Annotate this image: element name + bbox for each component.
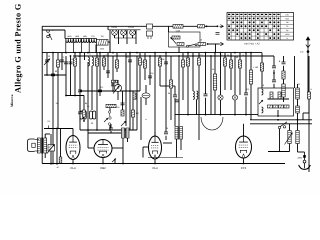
- wire: [65, 39, 67, 53]
- capacitor C22: [244, 93, 248, 95]
- wire: [297, 84, 299, 88]
- wire: [297, 113, 299, 120]
- wire: [165, 128, 167, 132]
- switch S2 contacts: [108, 111, 111, 125]
- wire: [109, 30, 111, 53]
- svg-text:Minerva: Minerva: [10, 94, 14, 107]
- junction: [87, 52, 89, 54]
- coil L6: [92, 57, 94, 66]
- wire: [132, 35, 134, 38]
- dial arc: [201, 117, 223, 130]
- junction: [102, 163, 104, 165]
- svg-text:YXJ11: YXJ11: [128, 26, 135, 29]
- winding L7: [122, 128, 125, 138]
- wire: [46, 53, 48, 75]
- junction: [297, 119, 299, 121]
- capacitor C18: [148, 76, 152, 78]
- junction: [103, 55, 105, 57]
- capacitor C9: [83, 111, 86, 119]
- wire: [56, 129, 58, 164]
- svg-text:MW: MW: [286, 17, 290, 20]
- svg-text:7WfW: 7WfW: [111, 26, 118, 29]
- capacitor C1: [45, 60, 49, 62]
- junction: [65, 95, 67, 97]
- wire coil rail: [65, 38, 97, 40]
- shield box: [169, 32, 201, 47]
- wire: [115, 37, 137, 39]
- wire: [214, 53, 216, 74]
- wire: [135, 30, 137, 44]
- junction: [230, 55, 232, 57]
- wire: [294, 56, 296, 88]
- svg-text:(4Ω): (4Ω): [67, 35, 71, 38]
- wire: [79, 53, 81, 130]
- wire: [74, 53, 76, 96]
- tube V9 CY2: [236, 136, 252, 170]
- junction: [72, 163, 74, 165]
- resistor R27: [270, 92, 273, 99]
- junction: [245, 114, 247, 116]
- wire: [289, 124, 291, 131]
- resistor R25: [279, 105, 284, 108]
- resistor R15: [158, 58, 161, 66]
- wire: [79, 96, 81, 113]
- wire: [80, 39, 82, 53]
- junction: [273, 72, 275, 74]
- svg-text:KW: KW: [286, 13, 289, 16]
- winding L15: [296, 88, 300, 99]
- svg-text:1M: 1M: [56, 102, 59, 105]
- wire: [239, 53, 241, 60]
- resistor R23: [268, 105, 273, 108]
- wire: [52, 53, 54, 164]
- wire arrow: [114, 160, 116, 164]
- tube V6 CL4: [66, 136, 80, 170]
- junction: [52, 52, 54, 54]
- wire: [149, 56, 151, 85]
- wire: [144, 53, 146, 80]
- wire: [72, 129, 74, 136]
- resistor R33: [112, 80, 118, 83]
- wire: [165, 53, 167, 96]
- wire lamp rail: [108, 29, 141, 31]
- wire: [250, 53, 252, 70]
- junction: [122, 163, 124, 165]
- wire: [250, 119, 312, 121]
- capacitor C7: [78, 90, 82, 92]
- wire: [136, 56, 138, 130]
- wire: [57, 75, 59, 129]
- wire: [178, 56, 180, 126]
- wire: [87, 62, 89, 133]
- capacitor C11: [93, 111, 96, 119]
- wire: [277, 110, 279, 116]
- wire: [107, 26, 109, 30]
- svg-text:UKW: UKW: [285, 33, 290, 36]
- wire baseline: [42, 163, 285, 165]
- junction: [159, 55, 161, 57]
- resistor R11: [121, 110, 124, 116]
- wire: [168, 26, 170, 32]
- antenna: [306, 36, 311, 56]
- wire: [87, 133, 89, 148]
- wire: [261, 53, 263, 63]
- wire: [180, 139, 182, 150]
- winding L8: [126, 128, 129, 138]
- wire: [112, 147, 123, 149]
- junction: [243, 163, 245, 165]
- wire cluster bottom: [80, 129, 137, 131]
- resistor R21: [229, 60, 232, 68]
- junction: [74, 52, 76, 54]
- svg-text:Allegro G und Presto G: Allegro G und Presto G: [14, 3, 23, 93]
- svg-text:Sp: Sp: [286, 29, 288, 32]
- wire: [60, 129, 62, 158]
- wire: [170, 56, 172, 80]
- junction: [99, 52, 101, 54]
- svg-text:CY2: CY2: [241, 166, 247, 170]
- junction: [205, 52, 207, 54]
- wire: [308, 56, 310, 92]
- resistor R13: [138, 58, 141, 65]
- mains switch S3: [278, 122, 287, 129]
- wire: [308, 99, 310, 113]
- svg-text:40: 40: [56, 166, 58, 169]
- wire: [72, 160, 74, 164]
- junction: [74, 95, 76, 97]
- junction: [149, 55, 151, 57]
- resistor R20: [223, 58, 226, 66]
- wire: [159, 56, 161, 86]
- resistor R26: [284, 105, 289, 108]
- wire: [215, 44, 217, 53]
- wire: [107, 53, 109, 78]
- junction: [214, 52, 216, 54]
- resistor R18: [186, 58, 189, 66]
- resistor R3: [172, 36, 180, 39]
- junction: [245, 52, 247, 54]
- junction: [207, 43, 209, 45]
- wire: [283, 56, 285, 62]
- wire: [84, 53, 86, 60]
- resistor R34: [133, 93, 136, 99]
- junction: [277, 115, 279, 117]
- speaker LS1: [28, 139, 36, 152]
- junction: [99, 90, 101, 92]
- capacitor C21: [204, 94, 208, 96]
- resistor R30b: [59, 157, 62, 163]
- wire: [174, 86, 176, 95]
- junction: [210, 55, 212, 57]
- capacitor C27: [282, 62, 286, 64]
- resistor R16: [169, 80, 172, 88]
- wire: [132, 91, 134, 110]
- capacitor C8: [80, 111, 83, 119]
- coil L10b: [197, 91, 198, 99]
- junction: [109, 129, 111, 131]
- switch S4: [187, 44, 198, 47]
- wire: [279, 129, 281, 152]
- junction: [220, 114, 222, 116]
- svg-text:TW: TW: [100, 35, 103, 38]
- wire: [154, 132, 156, 136]
- resistor R28: [278, 92, 281, 99]
- wire horizontal: [160, 85, 175, 87]
- junction: [50, 163, 52, 165]
- trimmer T: [142, 93, 150, 98]
- coil L9: [193, 91, 194, 99]
- wire: [116, 53, 118, 72]
- resistor R7: [95, 58, 98, 66]
- dial lamp LA2: [232, 95, 237, 100]
- junction: [220, 52, 222, 54]
- wire: [57, 53, 59, 75]
- wire: [250, 123, 312, 125]
- wire coil row feed: [64, 30, 66, 39]
- coil (4Ω): [66, 35, 73, 43]
- junction: [154, 52, 156, 54]
- wire corner: [45, 128, 49, 130]
- winding L12: [249, 70, 252, 84]
- resistor R10: [115, 60, 118, 68]
- winding TR1a: [37, 138, 40, 153]
- resistor R36: [260, 63, 263, 71]
- wire: [268, 151, 290, 153]
- capacitor C17: [109, 128, 113, 130]
- wire: [308, 99, 310, 172]
- resistor R9: [102, 58, 105, 66]
- junction: [234, 114, 236, 116]
- junction: [192, 55, 194, 57]
- wire horizontal: [80, 90, 140, 92]
- capacitor C5: [64, 62, 68, 64]
- wire: [70, 56, 72, 96]
- tube V8 CL4: [149, 136, 162, 170]
- wire: [96, 53, 98, 58]
- wire: [125, 91, 127, 126]
- wire: [99, 53, 101, 96]
- resistor R6: [73, 58, 76, 66]
- capacitor C32: [175, 100, 179, 102]
- core: [178, 126, 180, 140]
- coil L14: [262, 107, 264, 113]
- trimmer capacitor C25: [115, 85, 122, 92]
- resistor R24: [273, 105, 278, 108]
- winding TR2a: [175, 127, 178, 140]
- junction: [250, 52, 252, 54]
- wire: [123, 35, 125, 38]
- capacitor C13: [106, 71, 110, 73]
- junction: [206, 25, 208, 27]
- svg-text:2kW: 2kW: [100, 47, 104, 50]
- junction: [79, 52, 81, 54]
- resistor R14: [143, 60, 146, 68]
- wire: [224, 53, 226, 58]
- wire: [268, 98, 290, 100]
- junction: [52, 163, 54, 165]
- volume potentiometer R30: [48, 145, 55, 152]
- wire: [61, 53, 63, 70]
- wire: [118, 30, 120, 44]
- wire: [273, 84, 275, 88]
- junction: [87, 129, 89, 131]
- capacitor D1: [164, 132, 168, 134]
- junction: [56, 128, 58, 130]
- dial lamp LA5: [130, 30, 136, 36]
- wire: [289, 144, 291, 152]
- wire: [126, 30, 128, 44]
- junction: [277, 119, 279, 121]
- junction: [112, 52, 114, 54]
- capacitor C15: [121, 103, 125, 105]
- wire: [114, 35, 116, 38]
- wire: [122, 138, 124, 164]
- wire: [65, 56, 67, 96]
- resistor R32: [83, 110, 86, 117]
- wire: [234, 56, 236, 95]
- resistor R2 500k: [173, 25, 183, 29]
- svg-text:(T1): (T1): [91, 35, 95, 38]
- wire: [220, 53, 222, 95]
- capacitor C3: [60, 60, 64, 62]
- dropper network box: [258, 88, 294, 116]
- svg-text:1M: 1M: [162, 58, 165, 61]
- capacitor C30: [216, 33, 220, 35]
- wire: [103, 56, 105, 70]
- wire: [44, 134, 46, 138]
- mains lead-in: [299, 152, 311, 169]
- wire horizontal mid: [175, 114, 258, 116]
- capacitor C24: [78, 112, 82, 114]
- capacitor C12: [98, 90, 102, 92]
- capacitor C14: [111, 84, 115, 86]
- coil L5: [88, 57, 90, 66]
- svg-text:220V: 220V: [297, 156, 302, 159]
- svg-text:(4Ω): (4Ω): [83, 35, 87, 38]
- junction: [187, 114, 189, 116]
- tube V7 CB2: [94, 140, 112, 170]
- resistor R22: [238, 60, 241, 68]
- resistor R19: [197, 58, 200, 65]
- capacitor C19: [164, 62, 168, 64]
- wire: [205, 53, 207, 94]
- wire: [192, 53, 194, 91]
- wire baseline2: [148, 157, 183, 159]
- wire: [198, 53, 200, 58]
- svg-text:Am 5 W1 + AZ: Am 5 W1 + AZ: [244, 43, 260, 46]
- wire: [283, 79, 285, 84]
- wire horizontal: [44, 74, 66, 76]
- wire: [297, 144, 299, 153]
- svg-text:CB2: CB2: [100, 166, 106, 170]
- winding L11: [213, 74, 216, 90]
- capacitor C6: [69, 62, 73, 64]
- junction: [96, 129, 98, 131]
- winding TR2b: [180, 127, 183, 140]
- wire: [117, 80, 119, 85]
- svg-text:CL4: CL4: [70, 166, 76, 170]
- svg-text:CL4: CL4: [152, 166, 158, 170]
- winding L18: [296, 131, 299, 144]
- wire: [143, 146, 149, 148]
- wire horizontal: [66, 95, 84, 97]
- wire horizontal: [62, 128, 73, 130]
- wire antenna lead: [307, 56, 309, 92]
- junction: [129, 90, 131, 92]
- junction: [154, 163, 156, 165]
- wire: [154, 159, 156, 164]
- wire: [88, 39, 90, 53]
- wire: [245, 53, 247, 93]
- resistor R5: [56, 60, 59, 67]
- wire: [182, 53, 184, 100]
- junction: [129, 52, 131, 54]
- wire: [178, 47, 180, 53]
- resistor R17: [181, 60, 184, 67]
- capacitor C2 50: [51, 74, 59, 77]
- junction: [70, 55, 72, 57]
- winding L16: [296, 106, 300, 113]
- coil (4Ω): [74, 35, 81, 43]
- wire: [125, 53, 127, 91]
- terminal TA1 arrow: [217, 25, 224, 28]
- junction: [187, 52, 189, 54]
- wire: [176, 139, 178, 158]
- resistor R8: [106, 104, 116, 107]
- wire: [208, 43, 220, 45]
- svg-text:LW: LW: [286, 21, 289, 24]
- svg-text:2M: 2M: [142, 61, 145, 64]
- capacitor C10: [90, 111, 93, 119]
- coil L13: [262, 89, 264, 95]
- junction: [52, 74, 54, 76]
- resistor R3b: [177, 43, 184, 46]
- junction: [83, 120, 85, 122]
- wire: [129, 53, 131, 91]
- resistor R12: [131, 110, 134, 117]
- junction: [165, 52, 167, 54]
- wire: [243, 158, 245, 164]
- terminal block TB1: [147, 24, 153, 39]
- core: [124, 128, 126, 138]
- wire: [73, 39, 75, 53]
- svg-text:(4Ω): (4Ω): [75, 35, 79, 38]
- wire: [283, 97, 285, 102]
- coil (T1): [89, 35, 96, 43]
- junction: [112, 90, 114, 92]
- coil (4Ω): [81, 35, 88, 43]
- capacitor C20: [173, 95, 177, 97]
- wire main bus lower: [73, 55, 274, 57]
- winding TR1b: [44, 138, 47, 153]
- wire: [102, 158, 104, 164]
- wire: [88, 132, 121, 134]
- capacitor C28: [272, 66, 276, 68]
- resistor R4: [198, 43, 206, 46]
- wire: [35, 139, 39, 141]
- wire: [273, 70, 275, 80]
- winding L19: [282, 84, 285, 97]
- junction: [65, 52, 67, 54]
- dial lamp LA1: [218, 95, 223, 100]
- resistor R1 5k: [97, 40, 109, 46]
- resistor R35: [282, 71, 285, 79]
- wire top bus: [42, 25, 217, 27]
- wire: [187, 53, 189, 58]
- wire: [41, 26, 43, 163]
- wire: [122, 91, 124, 116]
- terminal E: [47, 30, 50, 38]
